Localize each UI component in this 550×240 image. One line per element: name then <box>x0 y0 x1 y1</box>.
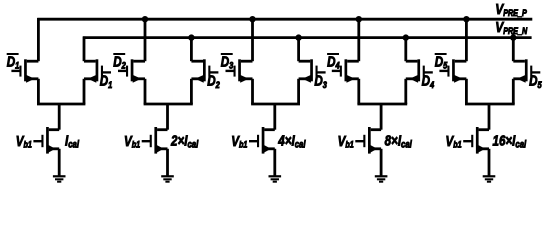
svg-text:Vb1: Vb1 <box>446 133 463 150</box>
svg-text:Ical: Ical <box>65 132 79 149</box>
svg-text:D1: D1 <box>7 53 20 71</box>
svg-text:4×Ical: 4×Ical <box>277 132 306 149</box>
svg-text:D3: D3 <box>221 53 234 71</box>
svg-text:Vb1: Vb1 <box>124 133 141 150</box>
svg-text:D4: D4 <box>422 72 435 90</box>
svg-text:VPRE_N: VPRE_N <box>495 19 527 37</box>
svg-text:VPRE_P: VPRE_P <box>495 1 527 19</box>
svg-text:Vb1: Vb1 <box>16 133 33 150</box>
svg-text:Vb1: Vb1 <box>338 133 355 150</box>
svg-text:D4: D4 <box>327 53 340 71</box>
svg-text:D5: D5 <box>435 53 448 71</box>
svg-text:Vb1: Vb1 <box>231 133 248 150</box>
svg-text:2×Ical: 2×Ical <box>170 132 199 149</box>
svg-text:D2: D2 <box>207 72 220 90</box>
svg-text:D3: D3 <box>314 72 327 90</box>
svg-text:D1: D1 <box>100 72 113 90</box>
svg-text:D2: D2 <box>113 53 126 71</box>
svg-text:8×Ical: 8×Ical <box>385 132 413 149</box>
svg-text:16×Ical: 16×Ical <box>493 132 527 149</box>
svg-text:D5: D5 <box>529 72 542 90</box>
